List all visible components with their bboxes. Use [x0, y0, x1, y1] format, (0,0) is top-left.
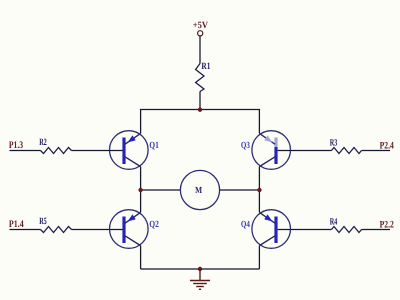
junction node bottom: [198, 267, 202, 271]
resistor R4 (horizontal zigzag): [332, 227, 362, 233]
wire: terminal to R1: [199, 36, 201, 64]
wire: motor rail right: [220, 189, 260, 191]
svg-text:P1.3: P1.3: [9, 140, 23, 151]
resistor R3 (horizontal zigzag): [332, 148, 362, 154]
resistor R1 (vertical zigzag): [196, 64, 204, 92]
junction node motor right: [257, 188, 261, 192]
svg-text:Q4: Q4: [241, 220, 250, 230]
wire: Q4 base to R4: [278, 229, 332, 231]
svg-text:Q3: Q3: [241, 141, 250, 151]
motor M: [180, 170, 219, 209]
junction node top: [198, 108, 202, 112]
wire: Q4 emitter to bottom rail: [258, 246, 260, 269]
junction node motor left: [138, 188, 142, 192]
transistor Q2: [110, 210, 149, 249]
resistor R2 (horizontal zigzag): [41, 148, 72, 154]
wire: R2 to Q1 base: [72, 150, 124, 152]
svg-text:P2.4: P2.4: [380, 140, 394, 151]
wire: P1.3 to R2: [10, 150, 41, 152]
svg-text:P1.4: P1.4: [9, 219, 24, 230]
svg-text:Q2: Q2: [149, 220, 159, 230]
wire: R5 to Q2 base: [72, 229, 124, 231]
resistor R5 (horizontal zigzag): [41, 227, 72, 233]
bottom rail wire: [141, 268, 260, 270]
svg-text:Q1: Q1: [149, 141, 159, 151]
wire: R4 to port P2.2: [362, 229, 391, 231]
transistor Q3: [252, 131, 291, 170]
wire: Q3 emitter to Q4 collector: [258, 167, 260, 213]
wire: motor rail left: [141, 189, 181, 191]
transistor Q4: [252, 210, 291, 249]
ground symbol: [190, 269, 210, 289]
wire: Q1 emitter to Q2 collector: [140, 167, 142, 213]
wire: R3 to port P2.4: [362, 150, 391, 152]
wire: P1.4 to R5: [10, 229, 41, 231]
wire: Q3 base to R3: [278, 150, 332, 152]
wire: R1 to top rail: [199, 92, 201, 110]
svg-text:R1: R1: [201, 61, 210, 72]
svg-text:P2.2: P2.2: [380, 219, 394, 230]
transistor Q1: [110, 131, 149, 170]
svg-text:R3: R3: [330, 137, 338, 148]
svg-text:R4: R4: [330, 216, 338, 227]
svg-text:R5: R5: [39, 216, 47, 227]
power terminal circle: [198, 31, 203, 36]
top rail wire: [141, 110, 260, 134]
wire: Q2 emitter to bottom rail: [140, 246, 142, 269]
svg-text:R2: R2: [39, 137, 47, 148]
svg-text:+5V: +5V: [193, 20, 208, 31]
svg-text:M: M: [195, 186, 202, 196]
